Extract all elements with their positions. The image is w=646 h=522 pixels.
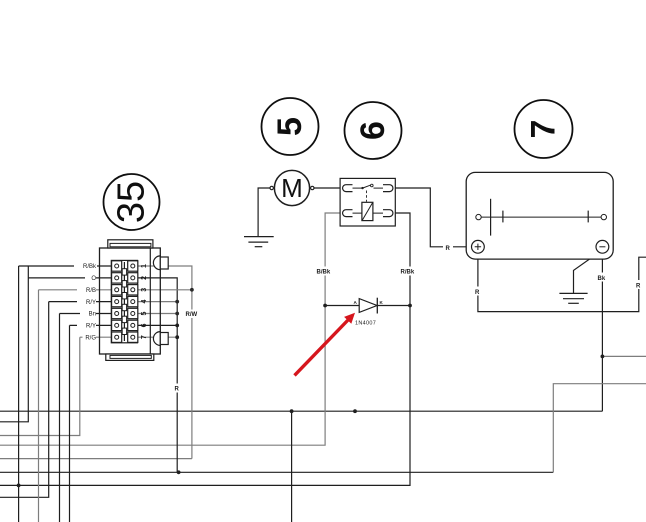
label R near battery plus [443, 243, 453, 252]
pin number 1 [141, 264, 148, 268]
wire R/W bus [138, 266, 192, 459]
svg-text:Bk: Bk [598, 276, 606, 282]
svg-text:R/Y: R/Y [86, 324, 96, 330]
connector pin field frame [111, 260, 137, 342]
relay terminal bottom-left [343, 210, 353, 217]
battery plate short left [502, 211, 504, 223]
svg-text:R: R [636, 283, 641, 289]
callout circle 7 [515, 100, 573, 158]
svg-text:R/Bk: R/Bk [83, 264, 97, 270]
label R/B row3 [77, 286, 96, 294]
connector D-latch top [153, 256, 168, 270]
ground under motor [244, 237, 274, 247]
svg-text:R/B: R/B [86, 288, 96, 294]
junction dot R bus row7 [175, 335, 179, 339]
pin number 5 [141, 311, 148, 315]
battery minus terminal [596, 240, 609, 253]
junction dot R/Bk bottom-left [17, 484, 21, 488]
connector pin L7 [112, 332, 122, 342]
wire row6 R/Y label horizontal [70, 324, 112, 326]
connector pin L6 [112, 320, 122, 330]
battery symbol terminals [476, 214, 607, 219]
wire relay to battery plus (R) [395, 188, 471, 247]
wire diode row [325, 305, 410, 307]
connector pin L1 [112, 261, 122, 271]
wire R/G turn-left [0, 337, 80, 435]
wire row5 to R bus [138, 313, 178, 315]
svg-text:R: R [175, 387, 180, 393]
wire row4 to R bus [138, 301, 178, 303]
connector bottom tab [106, 354, 154, 360]
connector pin L5 [112, 308, 122, 318]
wire row2 O label horizontal [28, 277, 112, 279]
connector pin L4 [112, 296, 122, 306]
label R below battery plus [473, 287, 482, 296]
wire battery plus down loop R [478, 253, 646, 311]
wire Bk vertical from battery minus [601, 253, 603, 411]
connector pin R6 [128, 320, 138, 330]
relay terminal top-right [383, 185, 393, 192]
connector top tab [108, 240, 153, 248]
label R/Bk right [400, 267, 420, 276]
wire R/Bk staircase vertical [18, 266, 20, 522]
svg-text:R: R [475, 290, 480, 296]
wire battery minus to ground [574, 252, 600, 294]
junction dot R bus row4 [175, 300, 179, 304]
connector pin R5 [128, 308, 138, 318]
junction dot R-bus bottom [177, 470, 181, 474]
junction dot R/W bus row3 [190, 288, 194, 292]
wire R/W turn-left [0, 458, 192, 460]
svg-text:2: 2 [141, 276, 148, 280]
svg-text:R/W: R/W [186, 312, 198, 318]
connector pin R2 [128, 273, 138, 283]
wire R/B staircase vertical [38, 290, 40, 522]
connector pin L3 [112, 285, 122, 295]
junction dot R bus row6 [175, 324, 179, 328]
svg-text:5: 5 [141, 311, 148, 315]
wire gray step right [553, 384, 646, 473]
svg-text:R/Bk: R/Bk [401, 270, 415, 276]
svg-text:35: 35 [111, 181, 153, 223]
junction dot Bk right [601, 355, 605, 359]
wire bottom bus Bk horizontal [0, 410, 602, 412]
junction dot Bk bus x292 [290, 409, 294, 413]
motor terminal left [270, 186, 273, 189]
red arrow annotation [295, 313, 356, 376]
relay terminal top-left [343, 185, 353, 192]
label 1N4007 [355, 321, 376, 327]
wire row6 to R bus [138, 324, 178, 326]
connector pin R4 [128, 296, 138, 306]
svg-text:1N4007: 1N4007 [355, 321, 376, 327]
connector D-latch bottom [153, 332, 168, 346]
connector pin R7 [128, 332, 138, 342]
relay switch [353, 184, 384, 189]
svg-text:7: 7 [141, 335, 148, 339]
label R/Bk row1 [74, 262, 97, 270]
connector zipper center rects [122, 262, 126, 341]
svg-text:R/G: R/G [85, 335, 96, 341]
wire B/Bk net [0, 213, 344, 445]
svg-text:7: 7 [525, 120, 563, 139]
svg-text:M: M [281, 173, 303, 203]
label K cathode [380, 300, 384, 305]
label R/Y row4 [77, 298, 96, 306]
callout circle 5 [262, 98, 319, 155]
wire row5 Bn label horizontal [60, 313, 112, 315]
battery plus terminal [472, 240, 485, 253]
label A anode [354, 300, 358, 305]
svg-text:R/Y: R/Y [86, 300, 96, 306]
motor terminal right [311, 186, 314, 189]
wire R/Bk net bottom [0, 213, 410, 485]
junction dot diode right [408, 304, 412, 308]
wire row3 to R/W bus [138, 289, 192, 291]
wire motor to ground [258, 188, 270, 237]
wire row3 R/B label horizontal [39, 289, 112, 291]
wire vertical from Bk bus down [291, 411, 293, 522]
wire row7 R/G label horizontal [80, 336, 112, 338]
relay K1 box [340, 178, 395, 226]
junction dot R bus row5 [175, 312, 179, 316]
label R/W [185, 310, 208, 319]
pin number 7 [141, 335, 148, 339]
wire R-bus bottom horizontal [0, 471, 553, 473]
label R/G row7 [83, 333, 97, 341]
wire R bus right side [138, 278, 178, 472]
label R on bus [173, 384, 182, 393]
wire R/Y2 staircase vertical [69, 325, 71, 522]
pin number 2 [141, 276, 148, 280]
junction dot Bk bus x355 [353, 409, 357, 413]
wire Bn staircase vertical [59, 314, 61, 522]
diode D1 1N4007 [359, 298, 377, 314]
svg-text:R: R [446, 246, 451, 252]
label R right edge [634, 280, 643, 289]
svg-text:B/Bk: B/Bk [317, 270, 331, 276]
wire motor to relay [314, 187, 341, 189]
battery plate short right [587, 211, 589, 223]
relay terminal bottom-right [383, 210, 393, 217]
wire row4 R/Y label horizontal [49, 301, 112, 303]
junction dot diode left [323, 304, 327, 308]
wire gray exit right at 356 [602, 355, 646, 357]
pin number 4 [141, 300, 148, 304]
svg-text:Bn: Bn [89, 312, 96, 318]
motor M1 [274, 170, 309, 205]
wire row7 to R bus [138, 336, 178, 338]
pin number 6 [141, 323, 148, 327]
wire R/Y turn-left [0, 302, 49, 498]
label Bk [597, 273, 609, 282]
relay switch-coil dashed link [366, 191, 368, 202]
label R/Y row6 [77, 322, 96, 330]
wire row1 R/Bk label horizontal [19, 265, 112, 267]
pin number 3 [141, 288, 148, 292]
relay coil [353, 202, 384, 220]
svg-text:O: O [91, 276, 96, 282]
svg-text:6: 6 [354, 121, 392, 140]
callout circle 35 [104, 174, 160, 230]
connector pin R3 [128, 285, 138, 295]
ground at battery [559, 293, 587, 303]
wire O turn-left [0, 266, 28, 422]
svg-text:6: 6 [141, 323, 148, 327]
connector 35 housing [100, 248, 161, 354]
label O row2 [85, 274, 96, 282]
battery B1 box [466, 172, 613, 259]
battery plate long [490, 199, 492, 236]
svg-text:3: 3 [141, 288, 148, 292]
svg-text:5: 5 [271, 117, 309, 136]
svg-text:4: 4 [141, 300, 148, 304]
connector pin R1 [128, 261, 138, 271]
label B/Bk [316, 267, 335, 276]
callout circle 6 [345, 102, 402, 159]
label Bn row5 [80, 310, 96, 318]
connector pin L2 [112, 273, 122, 283]
svg-text:1: 1 [141, 264, 148, 268]
